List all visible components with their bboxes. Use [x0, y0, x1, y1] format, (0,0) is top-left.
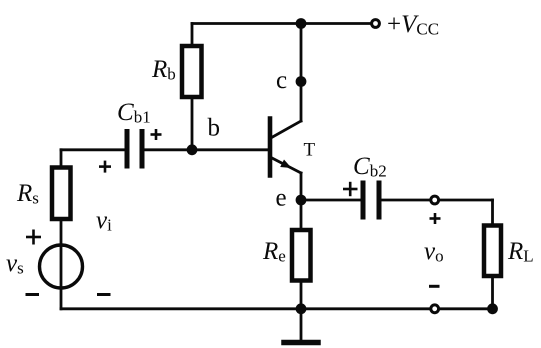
wire Re bottom [300, 281, 303, 309]
wire RL bottom [491, 276, 494, 309]
wire source branch left [61, 148, 125, 151]
wire Cb2 to output terminal [382, 199, 430, 202]
wire bottom rail [61, 307, 493, 310]
node RL bottom junction [487, 303, 498, 314]
wire collector rail [300, 24, 303, 122]
terminal +Vcc [372, 20, 380, 28]
minus vo [429, 285, 440, 288]
plus vo top [430, 213, 441, 224]
resistor Re [292, 230, 311, 281]
terminal output top [431, 196, 439, 204]
resistor Rs [52, 168, 71, 220]
node c [296, 76, 307, 87]
svg-text:T: T [304, 140, 316, 161]
node ground junction [296, 303, 307, 314]
svg-text:b: b [208, 115, 221, 142]
wire top rail [192, 22, 371, 25]
source vs [40, 245, 83, 288]
svg-text:c: c [276, 67, 287, 94]
wire Rs to source [60, 219, 63, 245]
wire source bottom [60, 288, 63, 309]
node e [296, 195, 307, 206]
plus Cb1 right [151, 129, 162, 140]
minus vs [26, 293, 40, 296]
capacitor Cb1 [127, 132, 142, 167]
ground [284, 309, 318, 343]
resistor RL [484, 226, 501, 277]
wire emitter down [300, 173, 303, 230]
wire emitter to Cb2 [301, 199, 361, 202]
plus Cb2 left [343, 182, 358, 196]
resistor Rb [182, 46, 202, 97]
terminal output bottom [431, 305, 439, 313]
plus vs top [26, 230, 41, 245]
wire terminal to RL top [440, 199, 493, 202]
node top junction [296, 18, 307, 29]
svg-text:e: e [276, 185, 287, 212]
minus vi [97, 293, 111, 296]
wire base [145, 148, 269, 151]
node b [187, 144, 198, 155]
wire Rb top lead [191, 24, 194, 47]
transistor T [270, 119, 301, 176]
plus vi top [99, 161, 111, 173]
capacitor Cb2 [363, 183, 379, 217]
wire Rb bottom to node b [191, 97, 194, 150]
